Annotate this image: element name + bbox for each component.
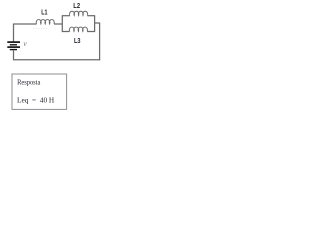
inductor L3 (69, 27, 87, 31)
battery V1 plate short bottom (10, 49, 17, 51)
svg-text:L1: L1 (41, 10, 47, 17)
battery V1 plate long (7, 46, 20, 48)
svg-text:L2: L2 (73, 3, 80, 10)
wire top branch left (62, 15, 70, 17)
wire top from source to L1 (14, 23, 37, 25)
wire right vertical (99, 23, 101, 60)
inductor L2 (70, 11, 88, 15)
inductor L1 (36, 20, 54, 24)
wire left vertical to battery (13, 24, 15, 42)
wire battery to bottom (13, 50, 15, 60)
wire bottom branch left (62, 31, 70, 33)
svg-text:Resposta: Resposta (17, 77, 41, 86)
node left vertical of parallel section (61, 16, 63, 32)
wire top branch right (87, 15, 95, 17)
battery V1 plate long top (7, 41, 20, 43)
wire L1 to node A (54, 23, 62, 25)
wire bottom (14, 59, 101, 61)
svg-text:L3: L3 (74, 38, 81, 45)
svg-text:V: V (23, 42, 27, 48)
battery V1 plate short (10, 44, 17, 46)
svg-text:Leq = 40 H: Leq = 40 H (17, 96, 55, 105)
faint dotted grid remnant (34, 28, 48, 30)
wire exit from parallel box (95, 22, 101, 24)
wire bottom branch right (87, 31, 95, 33)
node right vertical of parallel section (94, 16, 96, 32)
answer box (12, 74, 67, 109)
